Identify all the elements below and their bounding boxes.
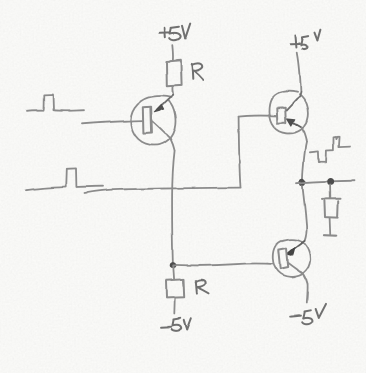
wire +5V to R1 [171, 45, 174, 60]
emitter with arrowhead [289, 120, 302, 127]
wire Q1 emitter long vertical [172, 151, 175, 264]
base bar [143, 107, 152, 134]
node A junction dot [299, 179, 306, 186]
wire input2 to Q2 base [84, 188, 241, 193]
circle [131, 96, 176, 145]
wire node B to R3 [329, 185, 331, 199]
emitter line [152, 122, 170, 139]
wire node C to Q3 base [173, 264, 273, 266]
resistor R3 [323, 199, 341, 218]
power label -5V (bottom right) [290, 304, 326, 324]
collector diagonal with arrowhead [158, 95, 174, 110]
wire R3 to ground [329, 218, 332, 234]
wire input1 to Q1 base [82, 121, 143, 124]
power label +5V (left) [159, 24, 190, 41]
resistor R2 [166, 279, 184, 297]
wire Q3 emitter down [306, 284, 309, 303]
output waveform symbol [310, 137, 351, 163]
node C junction dot [170, 262, 176, 268]
base bar [277, 108, 286, 123]
collector diagonal [286, 92, 301, 111]
base bar [278, 248, 288, 269]
circle [273, 239, 310, 277]
circle [269, 91, 308, 134]
transistor Q2 [269, 91, 308, 142]
power label +5V (right) [291, 30, 320, 50]
transistor Q3 [273, 239, 310, 284]
node B junction dot [327, 178, 334, 185]
label R (R1 value) [192, 63, 203, 80]
wire +5V to Q2 collector [297, 53, 301, 92]
input pulse symbol 1 (top left) [27, 95, 84, 111]
resistor R1 [167, 60, 182, 86]
wire node A to node B and right [297, 181, 355, 184]
collector diagonal with arrowhead [289, 240, 305, 252]
transistor Q1 [131, 95, 176, 150]
wire Q2 emitter down to node A [302, 142, 306, 182]
ground [325, 234, 337, 237]
wire node A to Q3 collector [302, 186, 306, 241]
wire node C to R2 [172, 266, 175, 280]
input pulse symbol 2 (bottom left) [26, 168, 103, 190]
label R (R2 value) [196, 280, 209, 293]
emitter line [287, 262, 303, 274]
wire R1 to Q1 collector [171, 86, 174, 95]
power label -5V (bottom middle) [161, 318, 191, 330]
wire R2 down [173, 297, 176, 313]
